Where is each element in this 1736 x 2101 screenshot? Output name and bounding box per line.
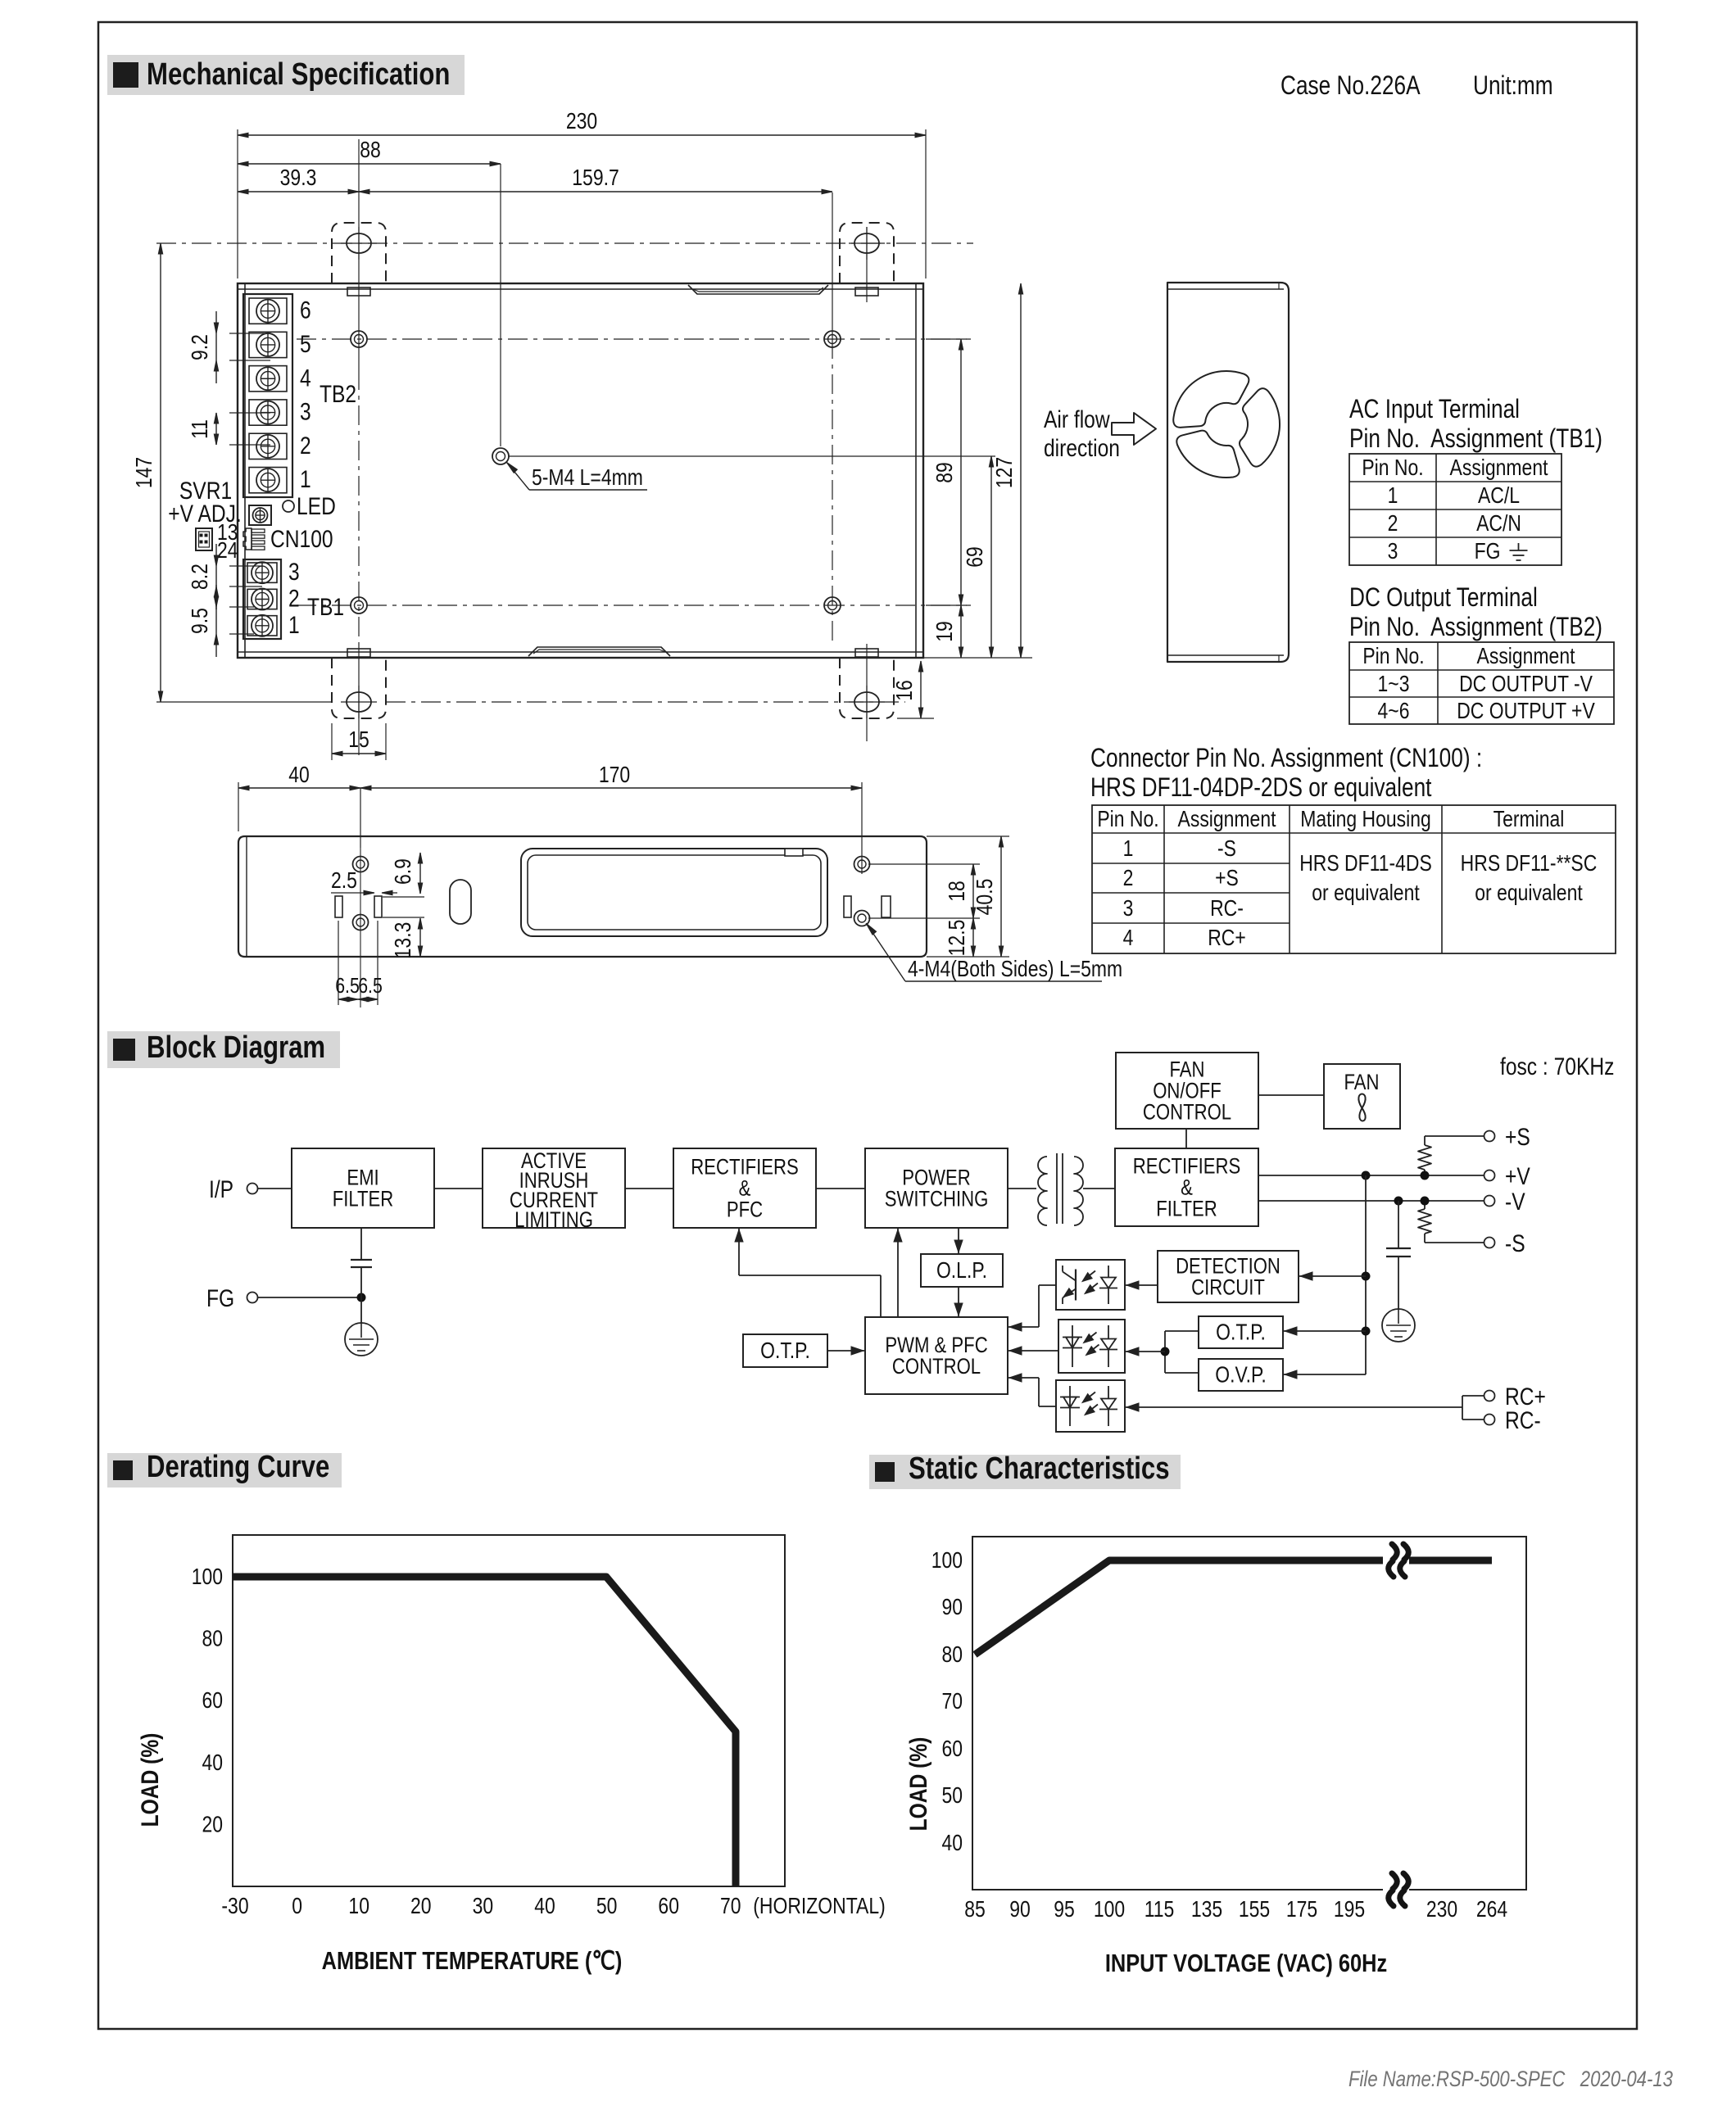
transformer T1 (1038, 1157, 1047, 1225)
svg-text:1: 1 (1123, 836, 1134, 862)
svg-text:30: 30 (473, 1894, 494, 1919)
dimension 8.2 (TB1) (229, 565, 262, 567)
svg-text:170: 170 (599, 763, 630, 788)
bracket centerline bottom-left (358, 644, 360, 755)
wire RECTIFIERS FILTER to FAN ON/OFF CONTROL (1185, 1129, 1187, 1148)
bracket centerline bottom-right (866, 644, 868, 741)
svg-text:O.T.P.: O.T.P. (760, 1338, 810, 1364)
mounting hole bottom-right M4 (824, 597, 841, 614)
terminal -V output (1484, 1196, 1495, 1207)
svg-text:70: 70 (720, 1894, 741, 1919)
svg-text:89: 89 (932, 462, 958, 483)
section header Derating Curve (107, 1453, 342, 1487)
mounting bracket bottom-left (dashed) (332, 658, 386, 718)
svg-text:1: 1 (288, 610, 300, 638)
wire FG (258, 1297, 361, 1298)
svg-text:-30: -30 (221, 1894, 248, 1919)
fan icon (1358, 1094, 1365, 1121)
wire bus to detection circuit (1299, 1275, 1366, 1277)
wire PWM to POWER SWITCHING (897, 1228, 899, 1317)
wire bus to OTP right (1283, 1330, 1366, 1332)
svg-text:175: 175 (1286, 1897, 1317, 1922)
TB2 cell 1 (249, 468, 287, 493)
svg-text:-S: -S (1505, 1229, 1525, 1257)
svg-text:2.5: 2.5 (331, 868, 357, 894)
svg-text:DC Output Terminal: DC Output Terminal (1349, 584, 1538, 613)
TB1 cell 1 (247, 616, 277, 636)
svg-text:16: 16 (892, 680, 918, 701)
centerline row lower holes (dash-dot) (297, 604, 967, 606)
wire OLP to PWM (958, 1287, 959, 1317)
svg-text:-V: -V (1505, 1188, 1525, 1216)
block detection circuit (1158, 1251, 1299, 1302)
svg-text:5: 5 (300, 330, 311, 358)
svg-text:(HORIZONTAL): (HORIZONTAL) (753, 1894, 885, 1919)
fan body bottom seam (1167, 654, 1284, 656)
fan impeller blade right (1240, 388, 1280, 466)
terminal -S sense (1484, 1238, 1495, 1248)
earth ground symbol in table (1518, 543, 1520, 550)
block PWM and PFC control (865, 1317, 1008, 1394)
svg-text:HRS DF11-4DS: HRS DF11-4DS (1299, 851, 1432, 876)
dimension 6.5 6.5 slot cols (338, 921, 339, 1005)
svg-text:3: 3 (1123, 896, 1134, 921)
dimension 6.9 (383, 896, 424, 898)
TB2 cell 3 (249, 400, 287, 425)
svg-text:15: 15 (348, 727, 369, 753)
terminal RC- remote (1484, 1415, 1495, 1425)
bracket tab slot bottom-right (855, 649, 878, 657)
svg-text:O.L.P.: O.L.P. (936, 1258, 987, 1284)
fan impeller blade bottom (1176, 431, 1239, 478)
bracket screw slot bottom-left (347, 692, 371, 712)
svg-text:159.7: 159.7 (572, 165, 619, 191)
svg-text:Assignment: Assignment (1178, 807, 1276, 832)
mounting bracket top-left (dashed) (332, 223, 386, 283)
TB2 cell 4 (249, 366, 287, 392)
svg-text:88: 88 (360, 138, 381, 163)
svg-text:100: 100 (931, 1548, 963, 1573)
svg-text:Pin No. Assignment (TB2): Pin No. Assignment (TB2) (1349, 614, 1602, 642)
svg-text:direction: direction (1044, 434, 1120, 462)
wire OTP to PWM (827, 1350, 865, 1352)
dimension 89 hole rows (926, 338, 971, 340)
output sense bus (1365, 1175, 1367, 1374)
wire opto U2 to PWM (1039, 1284, 1056, 1286)
screw hole side top-left M4 (353, 857, 369, 872)
svg-text:Assignment: Assignment (1477, 644, 1575, 669)
optocoupler U2 (1056, 1260, 1125, 1310)
svg-text:CIRCUIT: CIRCUIT (1191, 1276, 1265, 1301)
dimension 147 overall height (160, 243, 161, 702)
fan body right seam tick bottom (1278, 655, 1280, 662)
oval vent slot (450, 880, 471, 924)
chassis inner edge lines (244, 283, 246, 658)
terminal RC+ remote (1484, 1391, 1495, 1401)
svg-text:80: 80 (941, 1642, 963, 1668)
svg-text:INPUT VOLTAGE (VAC) 60Hz: INPUT VOLTAGE (VAC) 60Hz (1105, 1949, 1387, 1978)
dimension 69 center hole to bottom (990, 456, 992, 658)
wire I/P to EMI FILTER (258, 1188, 292, 1189)
fan impeller blade top (1173, 371, 1249, 428)
svg-text:230: 230 (566, 109, 597, 134)
slot right B (882, 896, 891, 917)
dimension 15 bracket slot (331, 723, 333, 760)
svg-text:2: 2 (300, 432, 311, 460)
TB2 cell 6 (249, 298, 287, 324)
svg-text:155: 155 (1239, 1897, 1270, 1922)
svg-text:50: 50 (941, 1783, 963, 1809)
svg-text:fosc : 70KHz: fosc : 70KHz (1500, 1053, 1614, 1080)
svg-text:Assignment: Assignment (1450, 455, 1548, 481)
dimension 39.3 to first hole col (238, 191, 359, 192)
svg-text:I/P: I/P (209, 1175, 233, 1203)
svg-text:9.2: 9.2 (188, 334, 213, 360)
svg-text:Mechanical Specification: Mechanical Specification (147, 57, 450, 92)
screw hole side bottom-left M4 (353, 915, 369, 931)
svg-text:18: 18 (945, 881, 970, 902)
svg-text:8.2: 8.2 (188, 564, 213, 590)
svg-text:Connector Pin No. Assignment (: Connector Pin No. Assignment (CN100) : (1090, 745, 1482, 773)
wire EMI FILTER to ACTIVE INRUSH (434, 1188, 483, 1189)
potentiometer SVR1 (249, 505, 271, 525)
dimension 16 bracket protrusion (897, 718, 934, 719)
svg-text:1: 1 (1388, 483, 1398, 509)
svg-text:4~6: 4~6 (1378, 699, 1410, 724)
svg-text:230: 230 (1426, 1897, 1457, 1922)
block FAN (1324, 1064, 1400, 1129)
wire EMI FILTER to Y-capacitor (360, 1228, 362, 1260)
block power switching (865, 1148, 1008, 1228)
dimension 230 overall width (237, 129, 238, 278)
svg-text:2: 2 (288, 584, 300, 612)
svg-text:80: 80 (202, 1627, 223, 1652)
wire opto U3 to PWM (1008, 1350, 1058, 1352)
wire -V output (1258, 1200, 1484, 1202)
svg-text:264: 264 (1476, 1897, 1507, 1922)
svg-text:+S: +S (1215, 866, 1239, 891)
mounting hole top-right M4 (824, 331, 841, 347)
svg-text:127: 127 (992, 457, 1018, 488)
svg-text:Air flow: Air flow (1044, 405, 1110, 433)
table TB2 frame (1349, 642, 1614, 724)
svg-text:FILTER: FILTER (1156, 1198, 1217, 1222)
terminal FG input (247, 1293, 258, 1303)
svg-text:135: 135 (1191, 1897, 1222, 1922)
terminal +V output (1484, 1170, 1495, 1181)
svg-text:115: 115 (1144, 1897, 1175, 1922)
svg-text:Derating Curve: Derating Curve (147, 1450, 329, 1484)
wire RC+ RC- join (1462, 1395, 1484, 1397)
wire -V to output capacitor (1398, 1201, 1399, 1248)
wire PFC feedback (739, 1275, 881, 1276)
block fan on/off control (1116, 1053, 1258, 1129)
top cover louver vent (688, 285, 828, 294)
static load curve (975, 1560, 1492, 1655)
svg-text:CONTROL: CONTROL (892, 1355, 981, 1379)
derating load curve (233, 1577, 736, 1886)
svg-text:4: 4 (1123, 926, 1134, 951)
leader 5-M4 L=4mm (507, 463, 529, 490)
svg-text:39.3: 39.3 (280, 165, 317, 191)
block OTP right (1199, 1316, 1283, 1348)
mounting hole top-left M4 (351, 331, 367, 347)
dimension 9.5 (TB1) (229, 606, 254, 608)
earth ground symbol left (345, 1323, 378, 1356)
wire ACTIVE INRUSH to RECTIFIERS PFC (625, 1188, 673, 1189)
leader 4-M4 (Both Sides) L=5mm (867, 924, 905, 981)
centerline col right holes (dash-dot) (832, 339, 833, 644)
svg-text:9.5: 9.5 (188, 608, 213, 634)
wire FG node to earth (360, 1297, 362, 1323)
centerline side left col (360, 848, 361, 1007)
svg-text:Pin No.: Pin No. (1362, 644, 1424, 669)
svg-text:or equivalent: or equivalent (1475, 881, 1582, 906)
svg-text:Mating Housing: Mating Housing (1300, 807, 1430, 832)
wire RECTIFIERS PFC to POWER SWITCHING (816, 1188, 865, 1189)
svg-text:24: 24 (217, 538, 238, 564)
svg-text:12.5: 12.5 (945, 920, 970, 957)
slot left B (374, 896, 382, 917)
svg-text:60: 60 (658, 1894, 679, 1919)
bracket centerline top-left (358, 139, 360, 370)
dimension 159.7 hole span (359, 191, 832, 192)
svg-text:RC-: RC- (1505, 1406, 1541, 1434)
connector CN100 symbol (243, 528, 252, 550)
svg-text:6.5: 6.5 (335, 974, 360, 998)
svg-text:11: 11 (188, 419, 213, 439)
svg-text:85: 85 (964, 1897, 986, 1922)
bottom cover louver vent (528, 647, 670, 656)
svg-text:95: 95 (1054, 1897, 1075, 1922)
TB2 cell 5 (249, 332, 287, 357)
bracket tab slot top-left (347, 288, 370, 296)
svg-text:DC OUTPUT +V: DC OUTPUT +V (1457, 699, 1595, 724)
svg-text:FILTER: FILTER (333, 1188, 394, 1212)
wire remote to opto U4 (1125, 1406, 1462, 1408)
centerline row bottom brackets (dash-dot) (156, 701, 332, 703)
svg-text:AMBIENT TEMPERATURE (℃): AMBIENT TEMPERATURE (℃) (322, 1947, 623, 1976)
svg-text:Pin No. Assignment (TB1): Pin No. Assignment (TB1) (1349, 425, 1602, 454)
block EMI filter U1 (292, 1148, 434, 1228)
wire +V output (1258, 1175, 1484, 1176)
screw hole side top-right M4 (854, 857, 870, 872)
svg-text:TB2: TB2 (320, 380, 356, 408)
optocoupler U4 (1056, 1380, 1125, 1432)
svg-text:5-M4 L=4mm: 5-M4 L=4mm (532, 465, 643, 491)
mounting bracket top-right (dashed) (840, 223, 894, 283)
wire opto U4 to PWM (1039, 1406, 1056, 1407)
air flow block arrow (1112, 413, 1156, 445)
latch notch in opening (785, 849, 803, 856)
bracket screw slot top-left (347, 233, 371, 253)
dimension 40 left hole col (238, 782, 239, 831)
centerline col center hole (500, 164, 501, 446)
svg-text:6.5: 6.5 (358, 974, 383, 998)
connector CN100 pin numbering box (196, 528, 212, 550)
svg-text:Pin No.: Pin No. (1097, 807, 1158, 832)
svg-text:40.5: 40.5 (972, 879, 998, 916)
centerline col left holes (dash-dot) (358, 370, 360, 644)
bracket centerline top-right (866, 227, 868, 302)
terminal block TB2 body (243, 294, 292, 497)
svg-text:3: 3 (288, 558, 300, 586)
axis break marks on x-axis (1383, 1881, 1409, 1898)
table CN100 frame (1092, 805, 1616, 953)
svg-text:SWITCHING: SWITCHING (885, 1188, 989, 1212)
terminal I/P input (247, 1184, 258, 1194)
slot left A (335, 896, 342, 917)
section header Block Diagram (107, 1031, 340, 1068)
svg-text:4: 4 (300, 364, 311, 392)
fan end view body (1167, 283, 1289, 662)
svg-text:Static Characteristics: Static Characteristics (909, 1451, 1170, 1486)
wire OTP OVP to opto U3 (1165, 1330, 1199, 1332)
svg-text:19: 19 (932, 621, 958, 642)
TB1 cell 2 (247, 589, 277, 609)
svg-text:40: 40 (288, 763, 310, 788)
screw hole side bottom-right M4 (854, 911, 870, 926)
svg-text:147: 147 (132, 457, 157, 488)
svg-text:10: 10 (348, 1894, 369, 1919)
svg-text:90: 90 (941, 1595, 963, 1620)
svg-text:DC OUTPUT -V: DC OUTPUT -V (1459, 672, 1593, 697)
bracket tab slot top-right (855, 288, 878, 296)
svg-text:Pin No.: Pin No. (1362, 455, 1423, 481)
terminal +S sense (1484, 1131, 1495, 1142)
ventilation opening (rounded) (521, 849, 827, 936)
svg-text:or equivalent: or equivalent (1312, 881, 1419, 906)
block OLP (921, 1254, 1003, 1287)
svg-text:O.V.P.: O.V.P. (1215, 1362, 1267, 1388)
svg-text:Block Diagram: Block Diagram (147, 1030, 325, 1065)
svg-text:PFC: PFC (727, 1198, 763, 1223)
svg-text:90: 90 (1009, 1897, 1031, 1922)
centerline row top brackets (dash-dot) (156, 242, 973, 244)
svg-text:20: 20 (410, 1894, 432, 1919)
resistor +S divider (1424, 1136, 1426, 1145)
svg-text:6: 6 (300, 296, 311, 324)
svg-text:100: 100 (1094, 1897, 1125, 1922)
svg-text:RC+: RC+ (1208, 926, 1246, 951)
svg-text:RC-: RC- (1210, 896, 1244, 921)
svg-text:O.T.P.: O.T.P. (1216, 1320, 1266, 1345)
block OTP thermal left (743, 1334, 827, 1367)
svg-text:60: 60 (941, 1736, 963, 1762)
terminal block TB1 body (243, 559, 281, 639)
svg-text:69: 69 (963, 546, 988, 568)
svg-text:CN100: CN100 (270, 525, 333, 553)
svg-text:20: 20 (202, 1812, 223, 1837)
bracket screw slot top-right (854, 233, 879, 253)
centerline col right holes extension (832, 192, 833, 339)
resistor -S divider (1424, 1234, 1426, 1243)
dimension 18 right holes (868, 863, 980, 865)
wire -S (1425, 1242, 1484, 1243)
svg-text:HRS DF11-**SC: HRS DF11-**SC (1461, 851, 1598, 876)
dimension 19 lower hole to bottom (960, 605, 962, 658)
svg-text:CONTROL: CONTROL (1143, 1101, 1231, 1125)
svg-text:LED: LED (297, 492, 336, 520)
svg-text:2: 2 (1123, 866, 1134, 891)
svg-text:70: 70 (941, 1689, 963, 1714)
svg-text:FG: FG (206, 1284, 234, 1312)
svg-text:Unit:mm: Unit:mm (1473, 72, 1553, 101)
svg-text:FG: FG (1475, 539, 1501, 564)
mounting hole bottom-left M4 (351, 597, 367, 614)
wire bus to OVP (1283, 1374, 1366, 1375)
optocoupler U3 (1058, 1320, 1125, 1373)
wire capacitor to earth (1398, 1257, 1399, 1309)
svg-text:LOAD (%): LOAD (%) (136, 1733, 164, 1827)
svg-text:+S: +S (1505, 1123, 1530, 1151)
centerline col side left extends to dim (360, 788, 361, 848)
mounting bracket bottom-right (dashed) (840, 658, 894, 718)
svg-text:Case No.226A: Case No.226A (1280, 72, 1421, 101)
dimension 9.2 (TB2 pin pitch) (229, 333, 270, 334)
svg-text:40: 40 (534, 1894, 555, 1919)
svg-text:4-M4(Both Sides) L=5mm: 4-M4(Both Sides) L=5mm (908, 957, 1122, 982)
svg-text:0: 0 (292, 1894, 302, 1919)
block rectifiers and filter (1115, 1148, 1258, 1226)
bracket screw slot bottom-right (854, 692, 879, 712)
dimension row line center hole (509, 455, 995, 457)
svg-text:AC/L: AC/L (1478, 483, 1520, 509)
svg-text:13.3: 13.3 (391, 922, 416, 959)
capacitor Y cap (351, 1259, 372, 1261)
dimension 88 to center hole (238, 163, 501, 165)
svg-text:2: 2 (1388, 511, 1398, 537)
dimension 170 hole span (861, 782, 863, 874)
wire transformer to RECTIFIERS FILTER (1083, 1188, 1115, 1189)
fan body top seam (1167, 288, 1284, 290)
block OVP (1199, 1359, 1283, 1391)
svg-text:+V: +V (1505, 1162, 1530, 1190)
side view left edge inner line (246, 836, 247, 957)
svg-text:40: 40 (202, 1750, 223, 1776)
wire Y-capacitor to FG node (360, 1267, 362, 1297)
LED indicator (283, 500, 294, 512)
svg-text:TB1: TB1 (307, 593, 344, 621)
wire POWER SWITCHING to transformer (1008, 1188, 1036, 1189)
svg-text:3: 3 (1388, 539, 1398, 564)
svg-text:195: 195 (1334, 1897, 1365, 1922)
table TB1 frame (1349, 454, 1561, 565)
wire +S (1425, 1135, 1484, 1137)
svg-text:40: 40 (941, 1831, 963, 1856)
centerline row upper holes (dash-dot) (297, 338, 967, 340)
dimension 12.5 (972, 918, 974, 957)
svg-text:LOAD (%): LOAD (%) (904, 1737, 932, 1832)
wire FAN ON/OFF CONTROL to FAN (1258, 1094, 1324, 1096)
svg-text:1: 1 (300, 465, 311, 493)
svg-text:AC Input Terminal: AC Input Terminal (1349, 396, 1520, 424)
TB1 cell 3 (247, 563, 277, 582)
svg-text:3: 3 (300, 397, 311, 425)
axis break marks on curve (1383, 1552, 1409, 1569)
block active inrush current limiting (483, 1148, 625, 1228)
svg-text:-S: -S (1217, 836, 1236, 862)
svg-text:Terminal: Terminal (1494, 807, 1565, 832)
dimension 40.5 overall height (927, 835, 1009, 837)
dimension 13.3 (383, 917, 424, 918)
capacitor output (1386, 1247, 1411, 1249)
side view chassis body (238, 836, 927, 957)
svg-text:60: 60 (202, 1688, 223, 1714)
wire detection to opto U2 (1125, 1284, 1158, 1286)
slot right A (844, 896, 851, 917)
earth ground symbol right (1382, 1309, 1415, 1342)
